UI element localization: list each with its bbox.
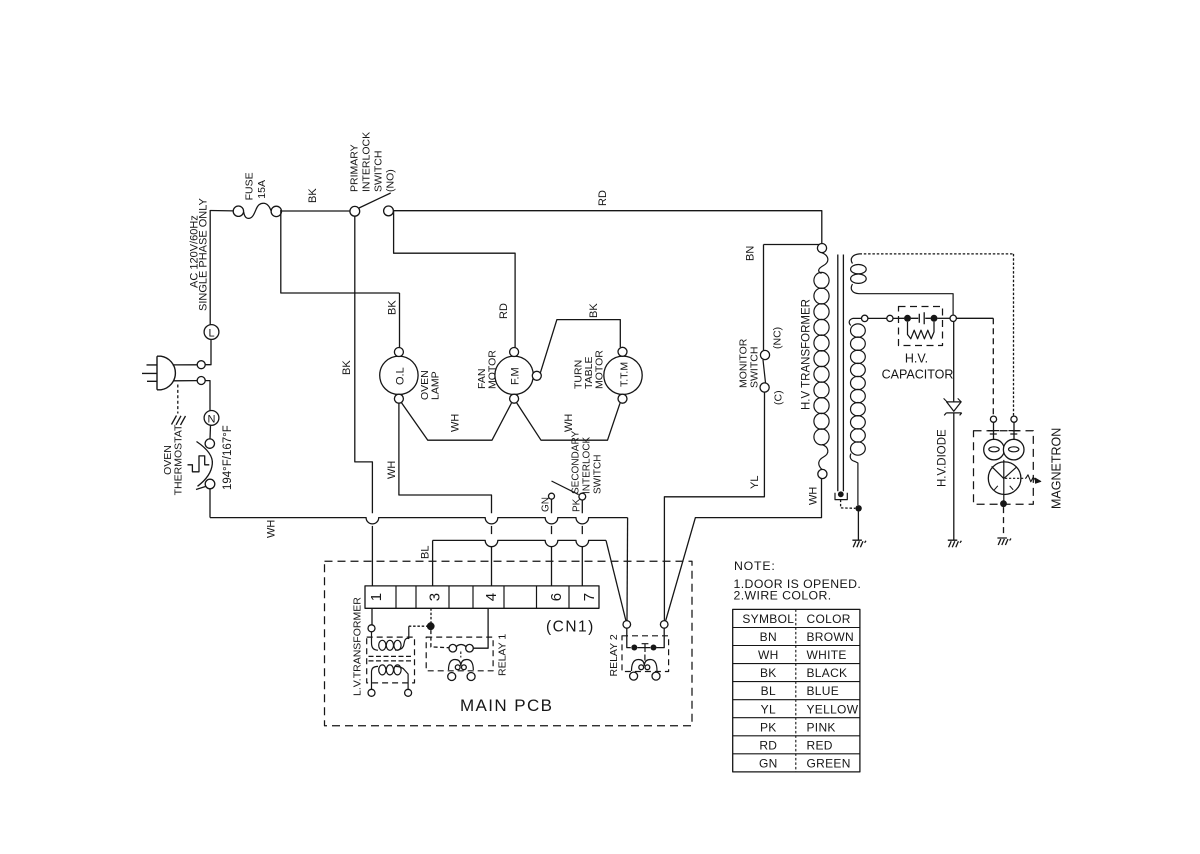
wire: row left to second node xyxy=(868,317,887,319)
svg-text:GN: GN xyxy=(541,497,552,512)
wire BK: interlock common down to jog and CN1 pin1 xyxy=(355,216,373,513)
HV transformer T1 primary terminals xyxy=(817,244,826,253)
svg-text:F.M: F.M xyxy=(510,367,522,385)
junction dot: capacitor right xyxy=(931,315,938,322)
wire: corner to fuse xyxy=(210,210,233,212)
LVT terminal bottom-left xyxy=(368,689,375,696)
svg-text:YL: YL xyxy=(749,476,761,489)
magnetron antenna arrow xyxy=(1005,477,1026,479)
svg-text:(CN1): (CN1) xyxy=(546,619,595,636)
primary interlock switch S1 (NO) xyxy=(350,206,360,216)
wire: plug to upper terminal circle xyxy=(173,364,198,366)
wire WH: relay2 to HV transformer primary xyxy=(666,479,822,621)
wire BN: top bus to monitor switch xyxy=(764,244,821,246)
monitor switch S3 xyxy=(760,350,769,359)
magnetron leads + rf chokes xyxy=(994,422,1015,440)
svg-text:GREEN: GREEN xyxy=(807,757,851,771)
svg-text:RD: RD xyxy=(597,190,609,206)
svg-text:BK: BK xyxy=(341,360,353,375)
svg-text:7: 7 xyxy=(581,593,598,601)
svg-text:CAPACITOR: CAPACITOR xyxy=(882,368,954,382)
wire: BK branch fuse down/right to oven lamp column xyxy=(281,210,400,293)
svg-text:RD: RD xyxy=(759,738,777,752)
magnetron terminal right xyxy=(1011,416,1017,422)
svg-text:SECONDARY: SECONDARY xyxy=(571,431,582,494)
svg-text:WH: WH xyxy=(450,414,462,432)
svg-text:WHITE: WHITE xyxy=(807,648,847,662)
junction dot pin3/LVT/relay1 xyxy=(427,622,435,630)
svg-text:WH: WH xyxy=(758,648,779,662)
svg-text:SYMBOL: SYMBOL xyxy=(742,612,794,626)
wire: pin1 to LV transformer xyxy=(371,608,373,625)
svg-text:15A: 15A xyxy=(256,180,268,199)
junction dot: capacitor left xyxy=(904,315,911,322)
node N (neutral terminal) xyxy=(204,411,219,426)
H.V. capacitor dashed box xyxy=(899,307,943,346)
core ground strap xyxy=(838,491,844,497)
wire RD: interlock to HV transformer primary (top bus) xyxy=(393,211,821,244)
fan motor FM xyxy=(495,356,533,394)
capacitor C1 plates xyxy=(911,312,931,324)
svg-text:FUSE: FUSE xyxy=(243,172,255,200)
LV transformer T2 terminal top-left xyxy=(368,625,375,632)
turntable motor TTM xyxy=(604,356,642,394)
relay2 contact xyxy=(627,628,631,647)
relay2 terminal left xyxy=(623,621,631,629)
svg-text:RED: RED xyxy=(807,738,833,752)
node: diode top junction xyxy=(950,315,956,321)
bleed resistor R1 xyxy=(908,322,935,339)
wire: plug to lower terminal circle xyxy=(174,380,198,382)
connector CN1 xyxy=(365,586,599,608)
svg-text:MAGNETRON: MAGNETRON xyxy=(1050,428,1064,509)
junction: secondary common xyxy=(855,505,861,511)
junction dot: magnetron cathode common xyxy=(1000,500,1007,507)
svg-text:WH: WH xyxy=(563,414,575,432)
svg-text:194°F/167°F: 194°F/167°F xyxy=(222,425,234,490)
svg-text:BK: BK xyxy=(387,300,399,315)
svg-text:YL: YL xyxy=(761,702,776,716)
svg-text:NOTE:: NOTE: xyxy=(734,559,776,573)
wire WH: oven lamp to fan motor common xyxy=(402,403,512,440)
oven lamp OL xyxy=(380,356,418,394)
magnetron tube xyxy=(988,462,1021,495)
HV transformer secondary winding xyxy=(849,318,861,325)
wire: junction right to magnetron lead xyxy=(956,317,993,319)
svg-text:BK: BK xyxy=(307,188,319,203)
svg-text:BN: BN xyxy=(760,630,777,644)
wire: to capacitor xyxy=(893,317,904,319)
wire YL: monitor switch to relay2 xyxy=(664,392,764,621)
svg-text:BL: BL xyxy=(761,684,776,698)
wire: row to diode node xyxy=(938,317,951,319)
wire: fuse to primary interlock xyxy=(282,210,351,212)
svg-text:THERMOSTAT: THERMOSTAT xyxy=(173,424,185,495)
svg-text:LAMP: LAMP xyxy=(430,371,442,400)
wire BK: branch down to oven lamp xyxy=(399,293,401,347)
svg-text:(NO): (NO) xyxy=(385,169,397,192)
wire GN: interlock to CN1 pin6 xyxy=(551,499,553,586)
svg-text:MAIN PCB: MAIN PCB xyxy=(460,696,553,715)
wire: junction into relay1 xyxy=(431,630,449,648)
svg-text:MOTOR: MOTOR xyxy=(487,350,499,389)
svg-text:PK: PK xyxy=(572,498,583,512)
LV transformer core xyxy=(369,656,414,661)
relay2 coil xyxy=(632,660,658,672)
terminal circle lower plug xyxy=(197,377,205,385)
svg-text:RD: RD xyxy=(498,303,510,319)
wire WH: fan motor to turntable motor common xyxy=(517,403,620,440)
ground: HV diode xyxy=(948,540,962,547)
svg-text:PRIMARY: PRIMARY xyxy=(349,144,361,192)
node: capacitor row second terminal xyxy=(887,315,893,321)
wire: magnetron to ground xyxy=(1003,507,1005,536)
svg-text:WH: WH xyxy=(386,461,398,479)
wire: pin3 down to junction xyxy=(430,608,432,622)
svg-text:SINGLE PHASE ONLY: SINGLE PHASE ONLY xyxy=(198,197,210,311)
wire RD branch: down and right to fan motor xyxy=(394,211,515,347)
relay2 terminal right xyxy=(660,621,668,629)
relay1 contact xyxy=(449,644,457,652)
svg-text:YELLOW: YELLOW xyxy=(807,702,859,716)
node: capacitor row left terminal xyxy=(862,315,868,321)
relay 1 K1 dashed box xyxy=(426,637,493,671)
svg-text:L.V.TRANSFORMER: L.V.TRANSFORMER xyxy=(352,597,364,696)
magnetron terminal left xyxy=(990,416,996,422)
wire: secondary common to ground xyxy=(857,512,859,541)
svg-text:BL: BL xyxy=(420,546,432,559)
magnetron V1 dashed box xyxy=(974,431,1034,505)
secondary interlock switch S2 xyxy=(549,493,555,499)
LV transformer secondary xyxy=(372,666,379,689)
svg-text:GN: GN xyxy=(759,757,778,771)
plug P1 (power cord plug) xyxy=(157,356,175,390)
ground: transformer secondary xyxy=(852,540,866,547)
svg-text:6: 6 xyxy=(548,593,565,601)
HV diode D1 xyxy=(953,322,955,402)
svg-text:2.WIRE COLOR.: 2.WIRE COLOR. xyxy=(734,589,832,603)
HV transformer primary winding xyxy=(819,253,828,274)
svg-text:BROWN: BROWN xyxy=(807,630,855,644)
ground: plug earth lead xyxy=(177,385,179,414)
LV transformer primary xyxy=(372,632,379,650)
wire: thermostat down to WH bus xyxy=(209,489,211,518)
magnetron heater cathodes xyxy=(984,439,1005,460)
relay1 coil xyxy=(460,652,462,658)
relay 2 K2 dashed box xyxy=(622,636,669,672)
svg-text:L: L xyxy=(208,328,214,340)
wire: plug lower terminal to N xyxy=(205,381,210,411)
svg-text:RELAY 1: RELAY 1 xyxy=(497,634,509,676)
relay1 coil terminals xyxy=(448,673,456,681)
svg-text:N: N xyxy=(208,414,216,426)
ground: magnetron xyxy=(997,538,1011,545)
svg-text:PK: PK xyxy=(760,720,777,734)
svg-text:PINK: PINK xyxy=(807,720,836,734)
svg-text:INTERLOCK: INTERLOCK xyxy=(361,132,373,192)
svg-text:(C): (C) xyxy=(773,390,785,405)
svg-text:H.V TRANSFORMER: H.V TRANSFORMER xyxy=(801,299,813,410)
LV transformer dashed box xyxy=(367,637,415,683)
wire: L to plug upper terminal xyxy=(205,340,211,365)
fuse F1 15A xyxy=(233,206,243,216)
LVT terminal bottom-right xyxy=(405,689,412,696)
wire: relay1 contact to pin4 xyxy=(473,608,488,648)
svg-text:MOTOR: MOTOR xyxy=(594,350,606,389)
node L (line terminal) xyxy=(204,325,219,340)
svg-text:SWITCH: SWITCH xyxy=(749,347,761,388)
svg-text:SWITCH: SWITCH xyxy=(373,151,385,192)
svg-text:T.T.M: T.T.M xyxy=(619,362,631,387)
svg-text:BLUE: BLUE xyxy=(807,684,840,698)
oven thermostat TH1 xyxy=(205,439,214,448)
svg-text:WH: WH xyxy=(266,520,278,538)
HV transformer filament winding xyxy=(851,254,859,264)
svg-text:COLOR: COLOR xyxy=(807,612,851,626)
main PCB dashed box xyxy=(325,561,693,726)
svg-text:H.V.DIODE: H.V.DIODE xyxy=(937,429,949,487)
svg-text:3: 3 xyxy=(427,593,444,601)
wire BL: CN1 pin3 to relay2 xyxy=(432,540,434,586)
svg-text:WH: WH xyxy=(808,487,820,505)
wire BK: fan motor to turntable motor xyxy=(540,320,620,374)
svg-text:RELAY 2: RELAY 2 xyxy=(608,634,620,676)
wire: filament top to magnetron xyxy=(860,253,1014,255)
terminal circle upper plug xyxy=(197,361,205,369)
wire WH: main bus from thermostat to relay2 xyxy=(210,518,628,524)
svg-text:BLACK: BLACK xyxy=(807,666,848,680)
svg-text:(NC): (NC) xyxy=(772,327,784,349)
svg-text:BK: BK xyxy=(588,303,600,318)
wire: AC line top-left corner down to L terminal xyxy=(209,210,211,325)
svg-text:O.L: O.L xyxy=(395,367,407,385)
svg-text:BN: BN xyxy=(745,246,757,261)
wire PK: interlock to CN1 pin7 xyxy=(581,500,583,586)
wire WH: motor common down to CN1 pin4 xyxy=(399,403,492,513)
svg-text:INTERLOCK: INTERLOCK xyxy=(582,436,593,494)
svg-text:BK: BK xyxy=(760,666,777,680)
wire: LVT to pin3 junction xyxy=(409,625,428,627)
svg-text:1: 1 xyxy=(368,593,385,601)
wire: N to thermostat xyxy=(209,425,212,438)
HV transformer core xyxy=(838,255,844,492)
svg-text:SWITCH: SWITCH xyxy=(593,455,604,494)
relay2 coil terminals xyxy=(630,672,638,680)
svg-text:H.V.: H.V. xyxy=(905,352,928,366)
wire color table xyxy=(733,609,860,772)
svg-text:4: 4 xyxy=(483,593,500,601)
